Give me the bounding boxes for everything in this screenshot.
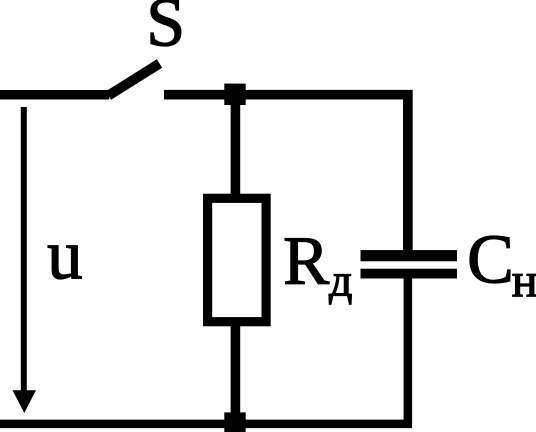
svg-text:н: н — [512, 254, 536, 307]
svg-text:S: S — [146, 0, 185, 62]
svg-text:R: R — [283, 223, 329, 299]
svg-text:C: C — [467, 222, 514, 299]
svg-text:u: u — [47, 217, 83, 295]
svg-text:д: д — [329, 255, 352, 306]
